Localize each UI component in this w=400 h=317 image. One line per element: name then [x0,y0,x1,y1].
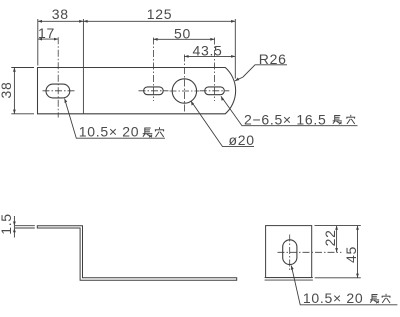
slotted hole middle 6.5x16.5 [144,87,164,95]
leader label 10.5x20 slot (top view) [65,99,166,140]
leader label dia20 [191,101,255,148]
dimension 45 [315,226,361,278]
z profile outline [37,226,236,281]
centerline side slot vertical [289,235,291,271]
svg-text:2−6.5× 16.5: 2−6.5× 16.5 [244,111,326,127]
svg-text:38: 38 [0,82,14,99]
centerline right slot horizontal [200,90,230,92]
dimension 17 [38,25,58,41]
leader label 10.5x20 side view [291,266,397,307]
leader label R26 [235,51,287,81]
svg-text:38: 38 [52,6,69,22]
plate outline top view [38,68,236,114]
bend line [82,19,84,114]
dimension 50 [153,26,214,42]
dimension 38 left vertical [0,68,34,114]
svg-text:43.5: 43.5 [192,43,222,59]
centerlines top view [43,37,230,117]
bottom flange strip edge-on [265,278,313,281]
slotted hole side view [283,240,297,265]
svg-text:22: 22 [322,229,338,246]
svg-text:1.5: 1.5 [0,213,14,235]
centerline left slot vertical [57,37,59,117]
centerline right slot vertical [214,38,216,102]
slotted hole left 10.5x20 [46,84,70,98]
dimension 38 top [38,6,84,66]
svg-text:R26: R26 [259,51,287,67]
leader label 2-6.5x16.5 [221,96,358,127]
side view square [266,226,312,278]
svg-text:ø20: ø20 [229,132,255,148]
centerline middle slot horizontal [139,90,169,92]
centerline middle slot vertical [152,38,154,102]
svg-text:45: 45 [343,246,359,263]
hole circle dia20 [172,79,196,103]
svg-text:125: 125 [147,6,172,22]
dimension 43.5 [184,43,235,59]
centerline side slot horizontal [278,251,342,253]
dimension 125 [83,6,235,79]
svg-text:50: 50 [174,26,191,42]
dimension 1.5 thickness [0,213,35,237]
centerline left slot horizontal [43,90,75,92]
svg-text:10.5× 20: 10.5× 20 [79,124,140,140]
svg-text:10.5× 20: 10.5× 20 [303,290,364,306]
slotted hole right 6.5x16.5 [205,87,225,95]
centerline circle horizontal [170,90,200,92]
centerline circle vertical [183,55,185,113]
svg-text:17: 17 [38,25,55,41]
dimension 22 [322,226,338,253]
